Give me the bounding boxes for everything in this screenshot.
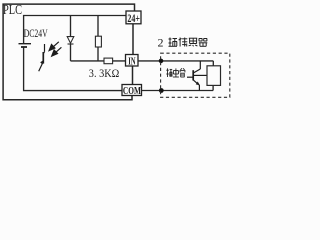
svg-text:2: 2 <box>158 36 164 50</box>
svg-text:3. 3KΩ: 3. 3KΩ <box>89 66 120 80</box>
svg-text:IN: IN <box>128 55 135 67</box>
svg-text:24+: 24+ <box>127 13 140 25</box>
svg-text:PLC: PLC <box>3 2 22 17</box>
svg-text:DC24V: DC24V <box>24 28 49 40</box>
svg-text:COM: COM <box>123 85 141 97</box>
